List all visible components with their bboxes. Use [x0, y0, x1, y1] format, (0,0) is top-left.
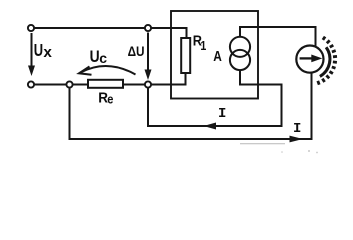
svg-text:U: U — [90, 48, 100, 66]
node junction left of Re — [66, 81, 72, 87]
svg-text:I: I — [293, 121, 301, 137]
arrow Uc (curved, leftward) — [81, 66, 136, 75]
wire A bottom lead — [239, 70, 241, 86]
wire R1 bottom to middle rail — [185, 73, 187, 86]
enclosure box around R1 and A — [171, 11, 258, 99]
svg-text:U: U — [34, 41, 43, 61]
svg-text:e: e — [107, 92, 113, 107]
wire middle rail left: terminal through Re to node — [31, 84, 186, 86]
svg-text:x: x — [43, 44, 52, 61]
svg-text:I: I — [218, 106, 226, 122]
arrow dU (down) — [147, 33, 149, 73]
wire meter bottom lead — [311, 73, 313, 140]
svg-text:A: A — [213, 48, 222, 64]
node dU top — [145, 25, 151, 31]
wire A top lead over to meter top — [240, 27, 316, 49]
arrow Ux (down) — [31, 33, 33, 68]
meter M1 scale graduation ticks — [318, 37, 337, 85]
wire node below Re-right down and feedback run to rail segment 2 — [148, 85, 282, 127]
node dU bottom / right of Re — [145, 81, 151, 87]
resistor R1 — [181, 38, 190, 73]
resistor Re — [88, 80, 123, 88]
arrow I left (feedback run) — [204, 123, 217, 130]
meter M1 (adjustable current source / indicator) — [296, 46, 323, 73]
svg-text:1: 1 — [200, 39, 206, 53]
wire top rail from Ux+ terminal to R1 top corner — [31, 28, 187, 38]
svg-text:ΔU: ΔU — [128, 43, 145, 59]
wire bottom return run with series meter — [70, 85, 313, 140]
arrow I right (bottom run) — [290, 136, 304, 143]
terminal node: Ux+ — [28, 25, 34, 31]
terminal node: Ux- — [28, 81, 34, 87]
meter M1 scale arc — [320, 47, 330, 76]
svg-text:c: c — [99, 50, 107, 66]
meter M1 pointer arrow — [300, 57, 313, 59]
transducer/amplifier U1 (A): two overlapping circles — [230, 37, 250, 57]
scan artifacts — [240, 143, 318, 153]
